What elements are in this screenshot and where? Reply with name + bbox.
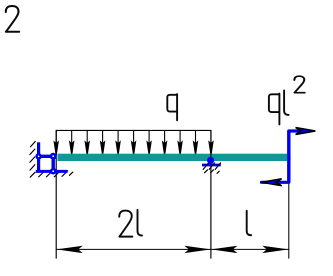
load label q bbox=[167, 94, 177, 120]
dimension arrow right of 2l bbox=[184, 246, 210, 253]
beam bbox=[58, 154, 291, 161]
distributed load top line bbox=[56, 129, 212, 131]
beam end hinge bbox=[50, 153, 57, 160]
dimension arrow right of l bbox=[262, 246, 288, 253]
wall hatching bbox=[30, 141, 35, 170]
moment bottom arm bbox=[262, 181, 289, 184]
moment couple vertical line bbox=[287, 131, 290, 182]
moment label ql2 : superscript 2 bbox=[294, 76, 304, 92]
roller support hinge bbox=[207, 157, 214, 164]
moment label ql2 : q bbox=[269, 94, 280, 125]
moment top arm bbox=[289, 129, 310, 132]
moment bottom arrowhead bbox=[262, 179, 282, 186]
right extension line bbox=[288, 184, 290, 259]
floor line bbox=[36, 170, 68, 173]
floor hatching bbox=[30, 171, 73, 178]
dimension label 2l : l bbox=[138, 210, 143, 236]
moment top arrowhead bbox=[296, 128, 316, 135]
moment label ql2 : l bbox=[284, 91, 289, 115]
wall hinge bbox=[35, 153, 41, 159]
dimension label 2l : 2 bbox=[119, 211, 132, 237]
floor hinge bbox=[50, 168, 57, 175]
roller support base line bbox=[202, 164, 221, 167]
dimension line l bbox=[211, 248, 289, 250]
roller support hatching bbox=[203, 163, 220, 174]
wall line bbox=[37, 142, 40, 171]
dimension label l bbox=[247, 211, 252, 235]
dimension arrow left of l bbox=[211, 246, 237, 253]
horizontal link bbox=[39, 155, 54, 158]
problem number label 2 bbox=[6, 6, 19, 32]
vertical link bbox=[52, 156, 55, 171]
distributed load arrows bbox=[54, 130, 213, 155]
dimension arrow left of 2l bbox=[56, 246, 82, 253]
dimension line 2l bbox=[56, 248, 211, 250]
middle extension line bbox=[210, 130, 212, 258]
left extension line bbox=[55, 130, 57, 258]
